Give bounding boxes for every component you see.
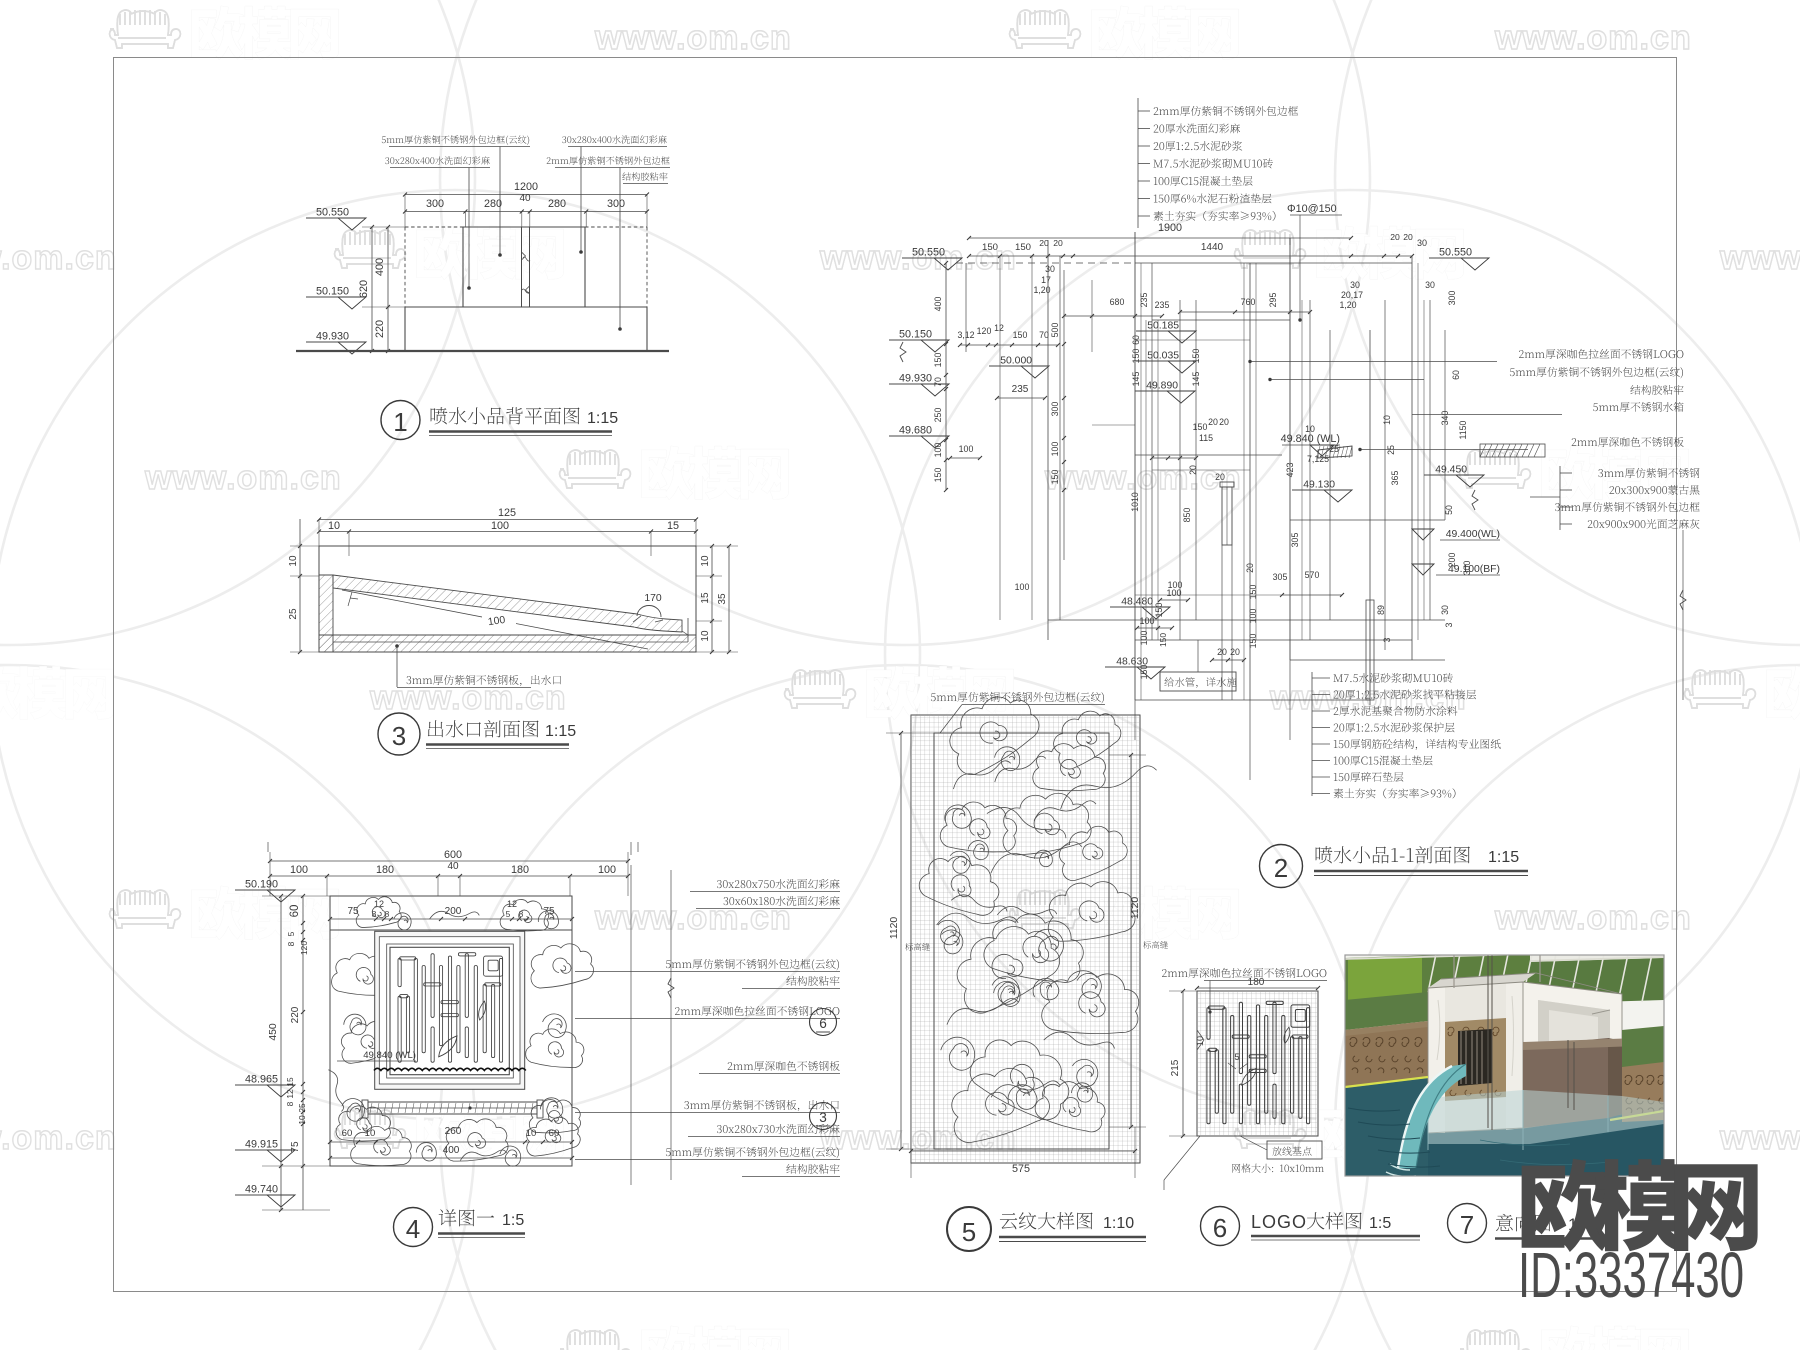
svg-text:6: 6	[1213, 1213, 1227, 1243]
svg-text:120: 120	[299, 941, 309, 955]
svg-text:www.om.cn: www.om.cn	[1719, 239, 1800, 277]
svg-text:50.150: 50.150	[316, 286, 349, 298]
svg-text:1440: 1440	[1201, 242, 1224, 253]
drawing 2 lower extension lines	[1134, 700, 1136, 740]
svg-text:365: 365	[1390, 471, 1400, 486]
drawing 4 cloud decor field	[354, 895, 402, 929]
svg-text:1:10: 1:10	[1103, 1215, 1134, 1232]
svg-text:120: 120	[977, 326, 992, 336]
svg-text:400: 400	[443, 1145, 460, 1156]
svg-text:3: 3	[1444, 622, 1454, 627]
svg-text:50.550: 50.550	[1439, 247, 1472, 259]
drawing 2 bottom-left labels	[1160, 672, 1236, 691]
drawing 5 title	[947, 1207, 991, 1251]
svg-text:www.om.cn: www.om.cn	[144, 1339, 342, 1350]
svg-text:20: 20	[1039, 238, 1049, 248]
svg-text:100: 100	[959, 444, 974, 454]
svg-text:305: 305	[1273, 572, 1288, 582]
svg-text:1120: 1120	[1130, 897, 1141, 920]
svg-text:150: 150	[1013, 330, 1028, 340]
svg-text:12: 12	[374, 899, 384, 909]
drawing 2 right label stack lower	[1598, 468, 1699, 478]
svg-text:200: 200	[445, 906, 462, 917]
svg-text:300: 300	[426, 198, 444, 210]
svg-text:20,17: 20,17	[1341, 290, 1363, 300]
svg-text:49.740: 49.740	[245, 1184, 278, 1196]
svg-text:20: 20	[1390, 232, 1400, 242]
drawing 2 dim rows mid	[960, 344, 1058, 346]
drawing 1 title	[381, 401, 420, 440]
svg-text:1:15: 1:15	[587, 410, 618, 427]
svg-text:www.om.cn: www.om.cn	[594, 19, 792, 57]
drawing 3 left wall	[319, 575, 333, 652]
svg-text:145: 145	[1131, 372, 1141, 387]
svg-text:1120: 1120	[889, 917, 900, 940]
svg-text:280: 280	[484, 198, 502, 210]
svg-text:25: 25	[288, 608, 299, 620]
svg-text:575: 575	[1012, 1163, 1030, 1175]
svg-text:400: 400	[933, 297, 943, 312]
svg-text:305: 305	[1290, 533, 1300, 548]
svg-text:60: 60	[549, 1128, 560, 1139]
drawing sheet frame	[114, 58, 1677, 1292]
drawing 2 break marks	[1472, 490, 1478, 510]
drawing 2 structure verticals	[965, 263, 967, 352]
svg-text:49.930: 49.930	[316, 331, 349, 343]
svg-text:60: 60	[342, 1128, 353, 1139]
svg-text:70: 70	[1039, 330, 1049, 340]
svg-text:100: 100	[933, 443, 943, 458]
svg-text:100: 100	[290, 864, 308, 876]
svg-text:20: 20	[1053, 238, 1063, 248]
svg-text:250: 250	[933, 408, 943, 423]
svg-text:260: 260	[445, 1126, 462, 1137]
svg-text:30: 30	[1440, 605, 1450, 615]
svg-text:3: 3	[819, 1110, 827, 1125]
drawing 4 leaf shapes	[434, 1036, 462, 1058]
svg-text:8: 8	[285, 1101, 295, 1106]
drawing 3 inner lines	[333, 641, 688, 643]
svg-text:35: 35	[717, 593, 728, 605]
site logo text	[1522, 1159, 1758, 1252]
svg-text:150: 150	[1154, 603, 1164, 618]
svg-text:10: 10	[365, 1128, 376, 1139]
svg-text:50.000: 50.000	[1000, 356, 1032, 367]
svg-text:40: 40	[519, 193, 531, 204]
svg-text:1900: 1900	[1158, 222, 1182, 234]
drawing 1 center joint strip	[521, 227, 523, 307]
svg-text:6: 6	[819, 1016, 827, 1031]
svg-text:300: 300	[607, 198, 625, 210]
svg-text:10: 10	[1382, 415, 1392, 425]
drawing 4 logo maze	[398, 953, 503, 1063]
drawing 6 bottom leaders	[1164, 1136, 1200, 1180]
svg-text:1:5: 1:5	[502, 1212, 524, 1229]
svg-text:10: 10	[526, 1128, 537, 1139]
drawing 3 right dimensions	[711, 546, 713, 652]
svg-text:150: 150	[1193, 422, 1208, 432]
svg-text:1:15: 1:15	[545, 723, 576, 740]
svg-text:15: 15	[285, 1077, 295, 1087]
svg-text:1:15: 1:15	[1488, 849, 1519, 866]
svg-text:49.450: 49.450	[1435, 465, 1467, 476]
svg-text:235: 235	[1012, 384, 1029, 395]
svg-text:100: 100	[1248, 609, 1258, 624]
svg-text:15: 15	[667, 520, 679, 532]
drawing 2 top-left label stack	[1154, 106, 1298, 116]
drawing 4 wavy water line	[374, 1068, 526, 1070]
svg-text:100: 100	[1050, 442, 1060, 457]
svg-text:48.965: 48.965	[245, 1074, 278, 1086]
svg-text:100: 100	[1139, 631, 1149, 646]
svg-text:17: 17	[1041, 275, 1051, 285]
svg-text:450: 450	[268, 1023, 279, 1041]
drawing 1 vertical dimensions	[371, 227, 373, 351]
svg-text:www.om.cn: www.om.cn	[1494, 19, 1692, 57]
svg-text:180: 180	[1248, 977, 1265, 988]
svg-text:30: 30	[1425, 280, 1435, 290]
svg-text:235: 235	[1139, 293, 1149, 308]
svg-text:215: 215	[1170, 1059, 1181, 1076]
svg-text:180: 180	[376, 864, 394, 876]
svg-text:5: 5	[962, 1217, 976, 1247]
svg-text:500: 500	[1050, 323, 1060, 338]
svg-text:100: 100	[491, 520, 509, 532]
svg-text:50.550: 50.550	[912, 247, 945, 259]
svg-text:50.550: 50.550	[316, 207, 349, 219]
svg-text:www.om.cn: www.om.cn	[369, 679, 567, 717]
drawing 3 bottom hatched band	[319, 635, 696, 652]
svg-text:2: 2	[1274, 853, 1288, 883]
svg-text:50: 50	[1444, 505, 1454, 515]
svg-text:150: 150	[1158, 633, 1168, 647]
svg-text:20: 20	[1215, 472, 1225, 482]
svg-text:3: 3	[392, 721, 406, 751]
drawing 1 labels	[382, 135, 529, 145]
svg-text:295: 295	[1268, 293, 1278, 308]
svg-text:www.om.cn: www.om.cn	[1044, 459, 1242, 497]
svg-text:150: 150	[982, 242, 998, 253]
svg-text:150: 150	[933, 468, 943, 483]
drawing 7 title	[1448, 1204, 1487, 1243]
svg-text:100: 100	[1139, 616, 1154, 626]
svg-text:115: 115	[1199, 433, 1213, 443]
svg-text:12: 12	[994, 323, 1004, 333]
drawing 4 logo panel frames	[375, 931, 525, 1089]
svg-text:12: 12	[285, 1089, 295, 1099]
svg-text:300: 300	[1447, 291, 1457, 306]
drawing 1 wall plan shape	[296, 350, 669, 352]
svg-text:220: 220	[290, 1006, 301, 1023]
svg-text:20: 20	[1230, 647, 1240, 657]
svg-text:5: 5	[286, 931, 296, 936]
svg-text:50.190: 50.190	[245, 879, 278, 891]
svg-text:10: 10	[288, 555, 299, 567]
drawing 2 hatched right block	[1480, 444, 1540, 457]
svg-text:1:5: 1:5	[1369, 1215, 1391, 1232]
svg-text:75: 75	[290, 1141, 301, 1153]
drawing 2 bottom label stack	[1333, 673, 1452, 683]
svg-text:www.om.cn: www.om.cn	[1044, 1339, 1242, 1350]
svg-text:10: 10	[297, 1115, 307, 1125]
drawing 4 leader backbone lines	[630, 865, 632, 1185]
svg-text:200: 200	[1447, 553, 1457, 568]
drawing 6 title	[1201, 1207, 1240, 1246]
svg-text:10: 10	[700, 630, 711, 642]
svg-text:www.om.cn: www.om.cn	[144, 459, 342, 497]
svg-text:150: 150	[933, 353, 943, 368]
svg-text:48.480: 48.480	[1121, 597, 1153, 608]
drawing 3 hatched slope band	[333, 575, 682, 632]
drawing 2 water tank wedge	[1318, 446, 1352, 458]
drawing 6 grid panel	[1197, 991, 1318, 1136]
svg-text:280: 280	[548, 198, 566, 210]
drawing 4 right leader labels	[717, 879, 840, 889]
svg-text:15: 15	[700, 592, 711, 604]
svg-text:760: 760	[1241, 297, 1256, 307]
svg-text:150: 150	[1139, 665, 1149, 680]
svg-text:235: 235	[1155, 300, 1170, 310]
svg-text:8: 8	[286, 941, 296, 946]
drawing 3 left dimensions	[299, 519, 301, 652]
svg-text:20: 20	[1219, 417, 1229, 427]
svg-text:www.om.cn: www.om.cn	[0, 239, 117, 277]
drawing 6 logo maze	[1207, 1001, 1310, 1124]
svg-text:49.680: 49.680	[899, 425, 932, 437]
svg-text:60: 60	[289, 905, 301, 918]
svg-text:570: 570	[1305, 570, 1320, 580]
svg-text:4: 4	[406, 1214, 420, 1244]
svg-text:49.400(WL): 49.400(WL)	[1446, 529, 1500, 540]
drawing 5 top label	[931, 692, 1104, 703]
drawing 5 cloud pattern	[937, 683, 1046, 780]
svg-text:60: 60	[1451, 370, 1461, 380]
svg-text:30: 30	[1045, 264, 1055, 274]
svg-text:150: 150	[1050, 470, 1060, 485]
drawing 2 right label stack upper	[1519, 349, 1683, 359]
svg-text:180: 180	[511, 864, 529, 876]
svg-text:150: 150	[1015, 242, 1031, 253]
svg-text:1150: 1150	[1458, 420, 1468, 439]
svg-text:300: 300	[1050, 402, 1060, 417]
svg-text:49.890: 49.890	[1146, 381, 1178, 392]
svg-text:125: 125	[498, 507, 516, 519]
drawing 2 pipes	[1222, 487, 1232, 545]
svg-text:20: 20	[1208, 417, 1218, 427]
drawing 3 leader	[395, 644, 399, 648]
svg-text:850: 850	[1182, 508, 1192, 523]
svg-text:www.om.cn: www.om.cn	[1494, 899, 1692, 937]
drawing 3 title	[378, 713, 420, 755]
svg-text:600: 600	[444, 849, 462, 861]
svg-text:1: 1	[393, 407, 407, 437]
svg-text:49.840 (WL): 49.840 (WL)	[363, 1050, 416, 1061]
svg-text:49.130: 49.130	[1303, 480, 1335, 491]
svg-text:20: 20	[1403, 232, 1413, 242]
drawing 5 grid panel	[911, 715, 1140, 1163]
svg-text:680: 680	[1110, 297, 1125, 307]
drawing 5 dimensions	[900, 733, 902, 1149]
svg-text:400: 400	[374, 258, 386, 276]
svg-text:Φ10@150: Φ10@150	[1287, 203, 1337, 215]
drawing 2 title	[1260, 845, 1303, 888]
svg-text:5: 5	[506, 909, 511, 919]
drawing 4 title	[394, 1208, 433, 1247]
svg-text:5: 5	[1234, 1052, 1239, 1062]
svg-text:300: 300	[1462, 561, 1472, 576]
svg-text:10: 10	[328, 520, 340, 532]
svg-text:30: 30	[1417, 238, 1427, 248]
svg-text:1200: 1200	[514, 181, 538, 193]
svg-text:150: 150	[1248, 585, 1258, 600]
drawing 6 top label	[1162, 968, 1326, 978]
svg-text:1,20: 1,20	[1339, 300, 1356, 310]
svg-text:100: 100	[1166, 588, 1181, 598]
drawing 2 structure horizontals	[1135, 262, 1412, 264]
svg-text:10: 10	[700, 555, 711, 567]
svg-text:100: 100	[598, 864, 616, 876]
svg-text:www.om.cn: www.om.cn	[0, 1119, 117, 1157]
svg-text:49.915: 49.915	[245, 1139, 278, 1151]
svg-text:30: 30	[1350, 280, 1360, 290]
svg-text:49.930: 49.930	[899, 373, 932, 385]
drawing 4 left dim chains	[280, 896, 282, 1210]
svg-text:89: 89	[1376, 605, 1386, 615]
drawing 3 basin outline	[319, 546, 696, 652]
svg-text:620: 620	[358, 280, 370, 298]
svg-text:220: 220	[374, 320, 386, 338]
svg-text:70: 70	[933, 377, 943, 387]
svg-text:www.om.cn: www.om.cn	[1719, 1119, 1800, 1157]
drawing 4 outer boundary	[330, 896, 572, 1166]
svg-text:150: 150	[1131, 349, 1141, 364]
svg-text:25: 25	[1386, 445, 1396, 455]
svg-text:100: 100	[1015, 582, 1030, 592]
drawing 1 leader lines	[499, 147, 501, 256]
3d render image	[1345, 952, 1665, 1177]
drawing 4 lower ledge	[368, 1102, 537, 1114]
svg-text:25: 25	[297, 1103, 307, 1113]
svg-text:40: 40	[447, 861, 459, 872]
svg-text:50.150: 50.150	[899, 329, 932, 341]
svg-text:170: 170	[644, 593, 662, 604]
svg-text:LOGO: LOGO	[1251, 1212, 1307, 1232]
svg-text:150: 150	[1248, 634, 1258, 649]
svg-text:ID:3337430: ID:3337430	[1518, 1239, 1744, 1311]
svg-text:7: 7	[1460, 1210, 1474, 1240]
